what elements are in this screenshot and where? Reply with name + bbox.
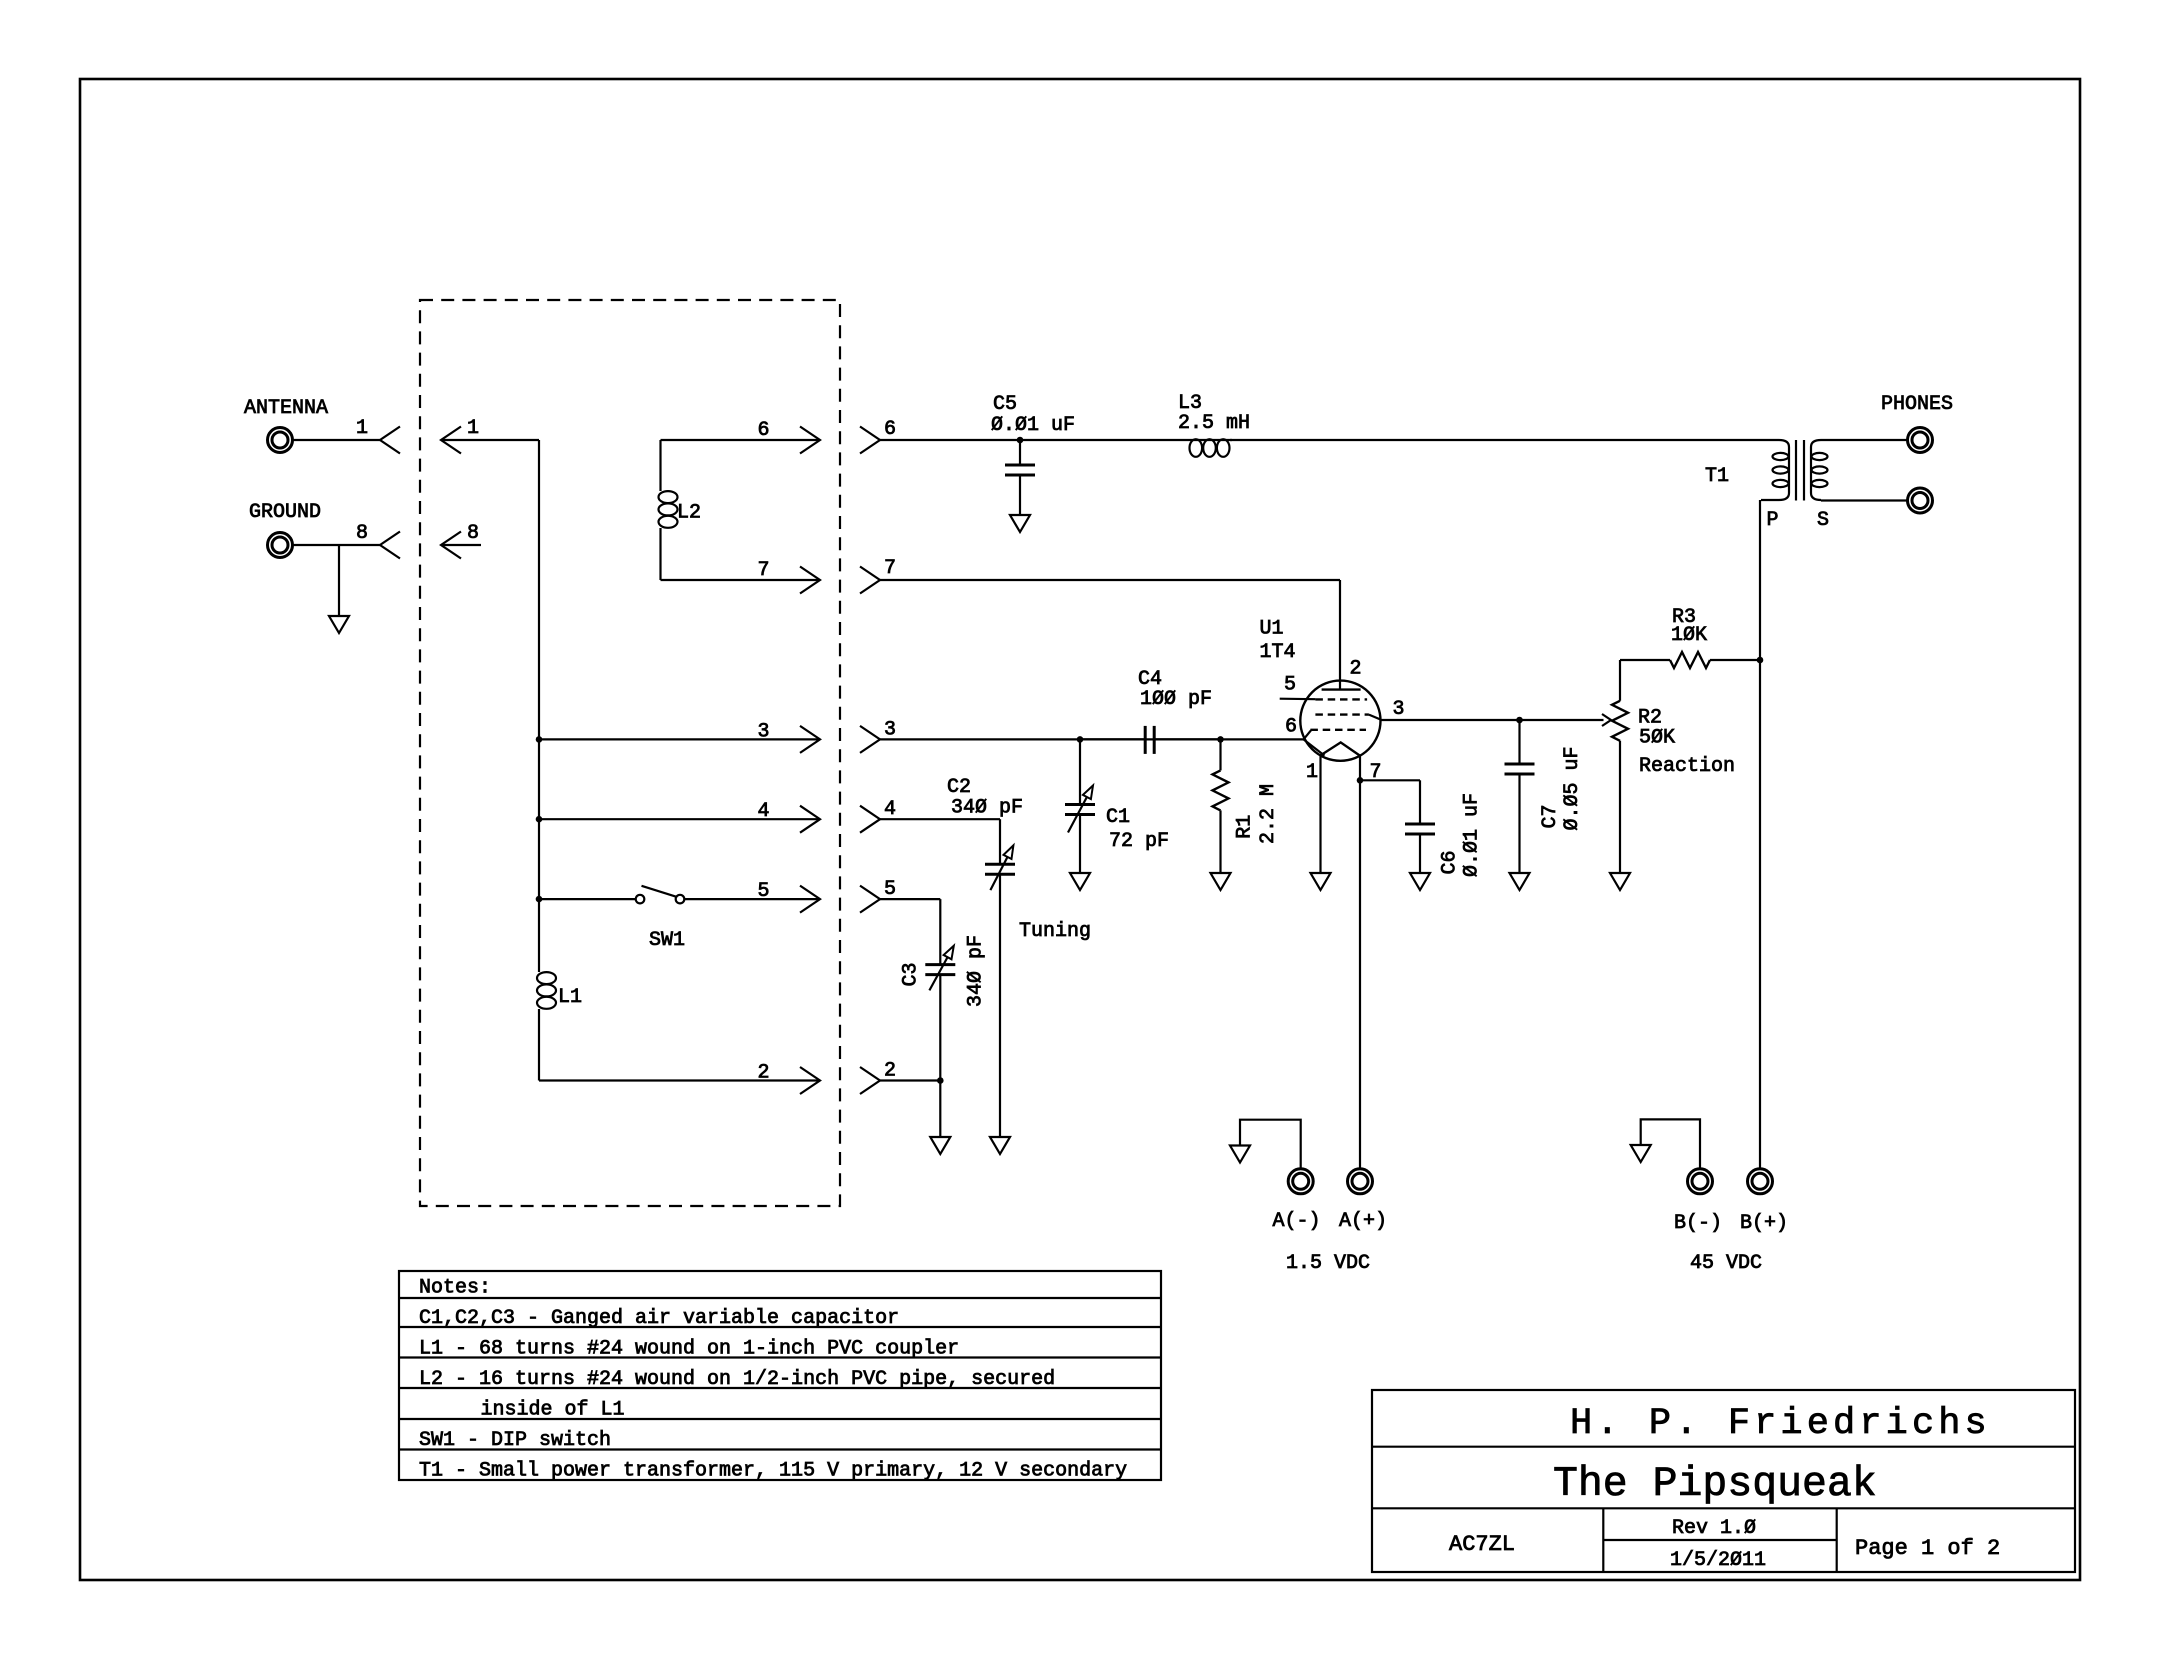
node C5 tap [1017,437,1024,444]
svg-text:1ØØ pF: 1ØØ pF [1140,688,1212,711]
svg-text:Page 1 of 2: Page 1 of 2 [1855,1536,2000,1561]
ground below C1 [1070,873,1090,890]
svg-text:Ø.Ø1 uF: Ø.Ø1 uF [1461,793,1484,877]
wire T1 secondary bottom to phones [1821,499,1907,501]
tube pin 5 lead [1280,698,1316,701]
ground at B(-) [1631,1145,1651,1162]
svg-text:34Ø pF: 34Ø pF [965,935,988,1007]
inductor L2 [659,440,661,491]
node bus-pin3 [536,736,543,743]
ground below C7 [1510,873,1530,890]
svg-text:45 VDC: 45 VDC [1690,1252,1762,1275]
node bus-pin5 [536,896,543,903]
wire T1 primary lead down [1759,500,1761,1168]
svg-text:inside of L1: inside of L1 [481,1399,625,1422]
pin 2 outer arrow [800,1067,820,1094]
wire L1 to pin 2 arrow [539,1079,820,1081]
svg-text:3: 3 [758,720,770,743]
svg-text:2.5 mH: 2.5 mH [1178,412,1250,435]
phones jack top [1908,428,1933,453]
svg-text:1: 1 [467,417,479,440]
pin 8 inner arrow [441,532,461,559]
tube pin 6 internal diagonals [1304,730,1312,739]
svg-text:PHONES: PHONES [1881,393,1953,416]
svg-text:3: 3 [884,718,896,741]
tube grid 3 dashed [1315,698,1367,700]
title block box [1372,1390,2075,1572]
pin 8 outer arrow [380,532,400,559]
svg-text:8: 8 [356,522,368,545]
svg-text:B(-): B(-) [1674,1212,1722,1235]
svg-text:Notes:: Notes: [419,1277,491,1300]
svg-text:U1: U1 [1260,618,1284,641]
inductor L1 [537,972,556,984]
capacitor C6 [1360,779,1420,781]
tube plate [1322,688,1361,690]
ground below C6 [1410,873,1430,890]
wire ground jack to pin 8 arrow [293,544,380,546]
title block divider right [1836,1508,1838,1572]
svg-text:5: 5 [884,878,896,901]
svg-text:H. P. Friedrichs: H. P. Friedrichs [1570,1403,1991,1445]
pin 1 outer arrow [380,427,400,454]
battery jack B(+) [1748,1169,1773,1194]
title block line 1 [1372,1446,2075,1448]
resistor R1 [1219,739,1221,770]
tube pin 1 lead [1319,755,1321,873]
svg-text:4: 4 [758,800,770,823]
ground below tube pin 1 [1311,873,1331,890]
wire bus vertical [538,440,540,972]
title block rev/date divider [1603,1539,1836,1541]
battery jack B(-) [1688,1169,1713,1194]
svg-text:1/5/2Ø11: 1/5/2Ø11 [1670,1549,1766,1572]
wire A(-) hook [1240,1120,1301,1168]
svg-text:ANTENNA: ANTENNA [244,397,328,420]
battery jack A(+) [1348,1169,1373,1194]
svg-text:7: 7 [758,559,770,582]
svg-text:7: 7 [884,557,896,580]
svg-text:R1: R1 [1234,815,1257,839]
svg-text:5ØK: 5ØK [1639,727,1675,750]
resistor R3 [1670,652,1710,668]
svg-text:SW1 - DIP switch: SW1 - DIP switch [419,1429,611,1452]
capacitor C2 (variable) [985,863,1015,866]
antenna jack J1 [268,428,293,453]
svg-text:The Pipsqueak: The Pipsqueak [1553,1461,1877,1508]
notes table row line 5 [399,1418,1161,1420]
pin 6 inner arrow [860,427,880,454]
wire pin 5 arrow to C3 [880,898,940,900]
svg-text:4: 4 [884,798,896,821]
svg-text:C7: C7 [1539,804,1562,828]
T1 secondary winding [1811,440,1821,500]
svg-text:T1: T1 [1705,465,1729,488]
svg-text:Tuning: Tuning [1019,920,1091,943]
ground jack J2 [268,533,293,558]
switch SW1 [636,895,645,904]
svg-text:Ø.Ø1 uF: Ø.Ø1 uF [991,414,1075,437]
svg-text:5: 5 [1284,674,1296,697]
wire pin 8 stub [441,544,481,546]
svg-text:C1,C2,C3 - Ganged air variable: C1,C2,C3 - Ganged air variable capacitor [419,1307,899,1330]
svg-text:2.2 M: 2.2 M [1257,784,1280,844]
wire L2 bottom to pin 7 arrow [661,579,821,581]
C2 variable arrow [990,857,1007,890]
phones jack bottom [1908,488,1933,513]
wire T1 secondary top to phones [1821,439,1907,441]
svg-text:T1 - Small power transformer,: T1 - Small power transformer, 115 V prim… [419,1460,1127,1483]
wire ground stub down [338,545,340,616]
capacitor C3 (variable) [925,963,955,966]
svg-text:6: 6 [1285,716,1297,739]
wire L3 to T1 [1230,439,1779,441]
dashed box (coil assembly) [420,300,840,1206]
title block divider left [1602,1508,1604,1572]
svg-text:SW1: SW1 [649,929,685,952]
tube filament [1321,742,1360,755]
ground symbol at ground jack [329,616,349,633]
tube grid 2 dashed [1315,713,1369,715]
wire pin 1 to bus [441,439,539,441]
ground below C2 [990,1137,1010,1154]
wire pin 7 arrow to tube pin 2 [880,579,1340,581]
wire R2 bottom lead [1619,741,1621,873]
svg-text:S: S [1817,509,1829,532]
capacitor C7 [1518,720,1520,764]
svg-text:P: P [1767,509,1779,532]
capacitor C4 [1080,738,1145,740]
T1 primary winding [1761,440,1789,500]
pin 3 outer arrow [800,726,820,753]
svg-text:3: 3 [1393,698,1405,721]
svg-text:L2 - 16 turns #24 wound on 1/2: L2 - 16 turns #24 wound on 1/2-inch PVC … [419,1368,1055,1391]
wire R3 corner down to R2 [1619,660,1621,701]
pin 6 outer arrow [800,427,820,454]
svg-text:2: 2 [884,1060,896,1083]
C1 variable arrow [1068,797,1087,833]
notes table row line 2 [399,1326,1161,1328]
svg-text:L1 - 68 turns #24 wound on 1-i: L1 - 68 turns #24 wound on 1-inch PVC co… [419,1338,959,1361]
node R3 junction [1757,657,1764,664]
wire pin 2 arrow to C3 line [880,1079,940,1081]
svg-text:34Ø pF: 34Ø pF [951,797,1023,820]
svg-text:C6: C6 [1439,850,1462,874]
pin 4 outer arrow [800,806,820,833]
svg-text:72 pF: 72 pF [1109,830,1169,853]
capacitor C1 (variable) [1079,739,1081,804]
pin 5 inner arrow [860,886,880,913]
wire SW1 to pin 5 arrow [685,898,821,900]
wire antenna jack to pin 1 arrow [293,439,380,441]
svg-text:L1: L1 [558,986,582,1009]
ground below R1 [1211,873,1231,890]
ground below C5 [1010,515,1030,532]
pin 4 inner arrow [860,806,880,833]
svg-text:1: 1 [1306,761,1318,784]
pin 3 inner arrow [860,726,880,753]
battery jack A(-) [1288,1169,1313,1194]
wire pin 6 to L3 [880,439,1232,441]
notes table row line 3 [399,1356,1161,1358]
svg-text:C3: C3 [900,962,923,986]
svg-text:8: 8 [467,522,479,545]
svg-text:Rev 1.Ø: Rev 1.Ø [1672,1517,1756,1540]
svg-text:5: 5 [758,880,770,903]
node C7 tap [1516,717,1523,724]
svg-text:1.5 VDC: 1.5 VDC [1286,1252,1370,1275]
tube U1 envelope [1300,681,1380,761]
svg-text:A(+): A(+) [1339,1210,1387,1233]
node C3-pin2 junction [937,1077,944,1084]
tube pin 3 internal diagonal [1369,715,1381,720]
pin 1 inner arrow [441,427,461,454]
tube grid 1 dashed [1310,729,1366,731]
notes table box [399,1271,1161,1480]
wire R3 left lead [1620,659,1670,661]
pin 7 outer arrow [800,567,820,594]
tube pin 7 lead to A(+) [1359,755,1361,1168]
notes table row line 4 [399,1387,1161,1389]
node C1 tap [1077,736,1084,743]
svg-text:Ø.Ø5 uF: Ø.Ø5 uF [1561,746,1584,830]
wire R3 right lead [1710,659,1760,661]
wire pin 4 inside box [539,818,820,820]
ground below R2 [1610,873,1630,890]
svg-text:L2: L2 [677,502,701,525]
svg-text:GROUND: GROUND [249,501,321,524]
wire L2 top to pin 6 arrow [661,439,821,441]
node bus-pin4 [536,816,543,823]
title block line 2 [1372,1507,2075,1509]
potentiometer R2 [1612,701,1628,741]
wire pin 5 to SW1 [539,898,636,900]
ground below C3 [930,1137,950,1154]
svg-text:1ØK: 1ØK [1671,624,1707,647]
wire pin 4 arrow to C2 [880,818,1000,820]
notes table row line 1 [399,1297,1161,1299]
svg-text:B(+): B(+) [1740,1212,1788,1235]
notes table row line 6 [399,1448,1161,1450]
node R1 tap [1217,736,1224,743]
svg-text:1T4: 1T4 [1260,641,1296,664]
C3 variable arrow [929,957,947,990]
pin 2 inner arrow [860,1067,880,1094]
node C6 tap [1357,777,1364,784]
pin 5 outer arrow [800,886,820,913]
capacitor C5 [1019,440,1021,465]
svg-text:6: 6 [758,419,770,442]
wire pin 3 inside box [539,738,820,740]
inductor L3 [1190,439,1203,457]
svg-text:C1: C1 [1106,806,1130,829]
svg-text:2: 2 [758,1062,770,1085]
pin 7 inner arrow [860,567,880,594]
svg-text:AC7ZL: AC7ZL [1449,1532,1515,1557]
svg-text:C5: C5 [993,393,1017,416]
svg-text:2: 2 [1350,658,1362,681]
svg-text:A(-): A(-) [1273,1210,1321,1233]
ground at A(-) [1230,1146,1250,1163]
T1 core [1795,440,1797,501]
svg-text:1: 1 [356,417,368,440]
R2 wiper arrow [1381,719,1604,721]
wire B(-) hook [1641,1119,1700,1168]
svg-text:Reaction: Reaction [1639,755,1735,778]
wire pin 3 arrow to tube grid [880,738,1304,740]
svg-text:6: 6 [884,418,896,441]
